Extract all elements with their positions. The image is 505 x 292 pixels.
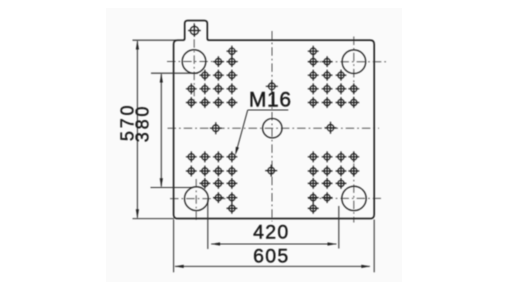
centerline tie-bar hole top-right vertical [353,37,355,102]
tie-bar hole top-right [342,50,366,74]
extension line top (570) [133,39,185,41]
extension line 380 top [151,72,198,74]
arrowhead 570 down [136,209,139,218]
centre locating ring hole [263,119,282,138]
dimension line 420 [211,243,336,245]
small hole above centre [266,80,278,92]
centerline tie-bar hole bottom-left vertical [195,179,197,223]
arrowhead 570 up [136,40,139,49]
tie-bar holes group [182,50,366,211]
dimension line 570 [136,41,138,218]
arrowhead 420 left [211,242,220,245]
extension line 605 right [373,220,375,273]
centerline tie-bar hole top-left vertical (from tab hole) [193,23,195,100]
arrowhead 420 right [328,242,337,245]
extension line 380 bottom [151,187,194,189]
small hole below centre [265,165,277,177]
extension line bottom (570) [133,218,175,220]
centerline tie-bar hole bottom-left horizontal [170,198,226,200]
main vertical centerline [271,31,273,222]
dimension line 605 [175,265,370,267]
small hole right mid [325,122,337,134]
leader shoulder under M16 [248,109,289,111]
faint scan tint [106,8,402,282]
centerline tie-bar hole bottom-right horizontal [308,197,381,199]
tie-bar hole top-left [182,50,206,74]
leader arrowhead [235,147,239,156]
main horizontal centerline [168,127,380,129]
tie-bar hole bottom-right [342,186,366,210]
arrowhead 605 right [361,265,370,268]
tapped hole grid bottom-left (M16) [186,151,237,213]
svg-text:605: 605 [253,246,289,268]
svg-text:M16: M16 [249,88,292,111]
small hole left mid [210,122,222,134]
tapped hole grid top-right (M16) [308,46,359,108]
arrowhead 380 up [160,73,163,82]
tie-bar hole bottom-left [185,187,209,211]
lifting tab hole [188,24,201,37]
tapped hole grid top-left (M16) [186,46,237,108]
dimension and extension lines group [133,40,375,272]
extension line 420 left [207,200,209,250]
centerline tie-bar hole top-left horizontal [167,61,238,63]
tapped hole grid bottom-right (M16) [308,151,359,213]
dimension line 380 [160,74,162,187]
leader line M16 [236,110,288,152]
arrowhead 380 down [160,178,163,187]
svg-text:380: 380 [133,104,153,142]
centerline tie-bar hole top-right horizontal [308,61,388,63]
extension line 605 left [173,220,175,273]
platen outline with lifting tab [174,21,375,219]
centerlines group [167,23,388,223]
leader diagonal [236,110,247,152]
extension line 420 right [338,206,340,249]
arrowhead 605 left [174,265,183,268]
small centerline holes group [210,80,337,176]
centerline tie-bar hole bottom-right vertical [353,152,355,223]
svg-text:420: 420 [253,221,289,243]
